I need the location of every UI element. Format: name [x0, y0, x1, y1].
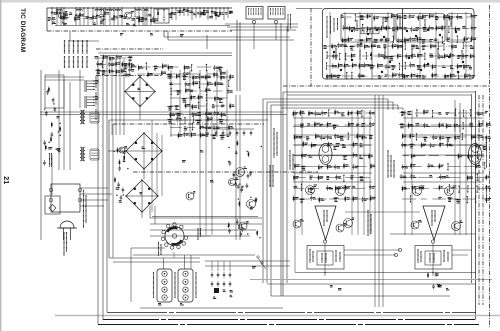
main amp box right edge — [472, 91, 476, 320]
power amp L triangle — [315, 206, 336, 240]
svg-text:TIC DIAGRAM: TIC DIAGRAM — [19, 8, 26, 52]
feed lines down — [70, 20, 240, 91]
preamp stray parts — [182, 150, 214, 182]
wire tuner out 2 — [168, 31, 294, 40]
output bus 1 — [295, 272, 476, 274]
output bus grey — [250, 279, 492, 281]
speaker feed L — [344, 248, 402, 256]
top page header bar — [0, 0, 500, 3]
wire tuner out 4 — [227, 26, 298, 28]
left corner — [45, 75, 84, 108]
output bus 3 — [271, 295, 450, 297]
transistor Q304 — [239, 221, 249, 230]
right margin captions — [486, 140, 488, 203]
filter capacitor chain — [213, 129, 254, 136]
svg-text:21: 21 — [2, 176, 9, 184]
connector CN201 — [85, 80, 99, 92]
IF amp sub-box — [396, 14, 445, 43]
tuner component columns — [48, 7, 158, 25]
driver transformer T201 — [80, 110, 99, 124]
fuse F201 — [45, 155, 60, 214]
preamp box outer — [109, 120, 268, 258]
parts near D202 — [114, 120, 163, 212]
power transformer windings — [49, 188, 82, 202]
ps grid verticals — [171, 70, 227, 137]
regulator label — [270, 165, 273, 187]
power transformer label — [80, 188, 112, 228]
selector wires — [131, 217, 258, 303]
transistor Q101 — [59, 11, 68, 19]
bus line 6 — [281, 108, 403, 110]
transistor Q453 — [445, 186, 457, 196]
L channel rails — [293, 118, 372, 182]
R channel verticals — [405, 110, 466, 235]
dual transistor Q451 (R) — [469, 144, 487, 165]
bridge rectifier D202 — [125, 132, 162, 169]
bus line 7 — [40, 111, 283, 113]
connector CN101 box — [246, 7, 263, 20]
IF/MPX sub-box2 parts — [397, 13, 450, 44]
electrolytic C310 — [214, 288, 219, 293]
IF/MPX vertical wires — [330, 12, 466, 79]
left rail — [40, 70, 42, 240]
IF/MPX sub-box3 parts — [446, 13, 477, 43]
jack labels — [154, 272, 197, 305]
bridge rectifier D203 — [125, 179, 158, 212]
tuner labels — [52, 13, 184, 37]
phono jack strip J302 — [178, 269, 193, 302]
bus risers — [263, 23, 287, 296]
rotary selector SW301 — [161, 223, 187, 249]
right dash-dot rails — [479, 95, 483, 305]
transistor Q301 — [236, 167, 248, 177]
connector CN102 box — [268, 7, 285, 20]
AC plug P201 — [57, 221, 77, 240]
L upper parts — [293, 109, 375, 140]
wire tuner top rail — [47, 7, 232, 9]
bus line 4 — [267, 102, 393, 110]
bottom mid wires — [133, 255, 290, 266]
FM front-end sub-box — [341, 14, 394, 43]
bottom rail 3 — [107, 312, 476, 314]
ps sub-box top rails — [98, 53, 232, 56]
power amp R triangle — [423, 206, 445, 240]
bus line 3 — [263, 99, 388, 110]
bottom-left risers — [96, 56, 107, 324]
IF/MPX captions — [327, 16, 338, 38]
L mid parts — [293, 141, 376, 203]
switch S302 — [252, 256, 266, 269]
IF transformer T101 box — [154, 9, 169, 23]
transistor Q454 — [411, 220, 422, 229]
transistor Q452 — [413, 186, 425, 196]
transistor Q404 — [344, 218, 355, 228]
left column parts — [43, 86, 61, 165]
bus labels — [274, 128, 293, 170]
selector hub — [159, 228, 201, 256]
phono jack strip J301 — [157, 269, 172, 302]
parts near D203 — [114, 177, 124, 203]
wire tuner out 1 — [164, 31, 290, 37]
divider dash-dot horizontal — [283, 85, 489, 87]
ps sub-box dashdot top — [96, 48, 163, 50]
preamp box bottom — [109, 258, 200, 262]
page number 21 — [2, 176, 9, 184]
bottom grey rail — [55, 315, 500, 317]
bridge leads — [108, 76, 144, 219]
power switch label — [50, 153, 52, 167]
bus line 2 — [287, 94, 471, 96]
left page edge strip — [0, 0, 1, 331]
IF/MPX black knots — [333, 29, 464, 73]
speaker feed R — [452, 250, 472, 255]
ps row across — [124, 62, 226, 78]
transistor Q455 — [452, 221, 463, 231]
transistor Q406 — [293, 219, 304, 228]
IF/MPX lower parts — [323, 42, 475, 80]
R lower parts — [295, 235, 449, 290]
left column wires — [59, 70, 80, 170]
wire tuner left rail — [46, 8, 48, 31]
bottom wire to riser — [140, 307, 283, 309]
regulator parts — [228, 140, 262, 238]
IF/MPX sub-box1 parts — [341, 13, 397, 44]
transistor Q203 — [119, 146, 127, 153]
driver transformer T202 — [80, 147, 99, 161]
transistor Q305 — [186, 191, 195, 200]
bus line 5 — [271, 105, 398, 110]
wire tuner out 3 — [225, 23, 298, 25]
connector CN202 — [85, 96, 99, 108]
IF/MPX unit box — [296, 9, 474, 80]
bottom rail 2 — [98, 324, 479, 326]
output bus 2 — [267, 283, 476, 285]
transistor Q402 — [306, 185, 318, 195]
R output box — [415, 240, 452, 276]
bridge rectifier D201 — [124, 76, 155, 107]
jack wires — [164, 255, 192, 269]
parts list table lower — [65, 56, 88, 68]
verticals to regulator — [200, 112, 212, 235]
R upper parts — [399, 109, 492, 142]
connector CN102 pin — [274, 20, 277, 40]
tuner boundary dash-dot — [47, 30, 232, 32]
transistor Q302 — [229, 178, 239, 186]
transistor Q303 — [247, 199, 258, 209]
ps rect dash-dot — [96, 76, 318, 173]
speaker wires — [390, 100, 476, 234]
CONNECTOR caption — [288, 14, 291, 32]
divider dash-dot vertical — [310, 8, 312, 86]
R mid parts — [400, 142, 491, 204]
parts list table upper — [65, 40, 88, 54]
AC cord label — [64, 232, 67, 256]
transistor Q102 — [125, 11, 135, 19]
verticals to D201 — [112, 59, 124, 135]
L output box — [307, 240, 344, 276]
connector CN101 pin — [252, 20, 255, 49]
ps upper parts — [95, 54, 135, 75]
secondary wires — [150, 206, 262, 236]
bus line 8 — [40, 114, 287, 116]
regulator verticals — [236, 95, 240, 240]
page title TIC DIAGRAM — [19, 8, 26, 52]
power transformer T203 box — [51, 184, 80, 212]
ps grid row 3 — [167, 116, 234, 140]
wire tuner mid rail — [55, 25, 230, 27]
page border dash-dot — [489, 5, 491, 328]
bus line 1 — [283, 91, 475, 93]
R channel rails — [403, 118, 482, 182]
amp mid verticals — [368, 95, 394, 307]
ps grid row 1 — [169, 73, 234, 95]
transistor Q405 — [336, 223, 347, 232]
L channel verticals — [295, 110, 370, 235]
tuner section dividers — [104, 8, 146, 26]
bottom rail 1 — [103, 319, 475, 321]
transistor Q403 — [336, 186, 348, 196]
inter-channel wire — [345, 211, 420, 213]
dual transistor Q401 (L) — [319, 144, 337, 165]
IF/MPX separator line — [372, 9, 403, 80]
coupling caps — [211, 261, 233, 299]
tuning coils L101-L107 — [56, 9, 148, 11]
wire tuner out 5 — [230, 29, 296, 31]
ceramic filter box — [361, 28, 379, 34]
tuner right component columns — [168, 7, 233, 20]
MPX sub-box — [447, 14, 472, 43]
ps grid row 2 — [167, 94, 234, 118]
